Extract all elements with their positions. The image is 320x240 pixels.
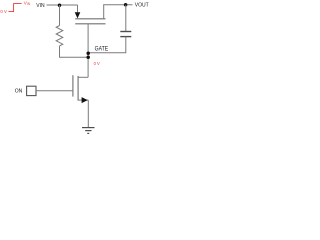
- resistor R zigzag body: [56, 26, 63, 46]
- wire Q2 source down to ground: [87, 100, 89, 128]
- wire Q2 source lead: [78, 99, 88, 101]
- body diode arrow (filled triangle pointing down onto channel): [75, 12, 81, 18]
- ground symbol: [82, 127, 95, 129]
- node junction dot gate/resistor: [86, 55, 90, 59]
- svg-text:VOUT: VOUT: [135, 3, 149, 9]
- transistor Q2 channel bar: [77, 76, 79, 101]
- svg-text:ON: ON: [15, 89, 23, 95]
- svg-text:GATE: GATE: [95, 46, 109, 52]
- wire ON box to Q2 gate: [36, 90, 73, 92]
- wire VOUT top horizontal: [103, 4, 132, 6]
- svg-text:VIN: VIN: [24, 0, 31, 6]
- capacitor C top plate: [120, 31, 131, 33]
- wire gate net vertical (Q1 gate down to Q2 drain): [87, 24, 89, 78]
- capacitor C top lead: [125, 5, 127, 32]
- pass transistor Q1 upper plate (channel): [75, 18, 105, 20]
- source waveform step (red): [9, 4, 22, 12]
- wire Q1 drain riser to VOUT rail: [103, 5, 105, 19]
- svg-text:VIN: VIN: [36, 3, 45, 9]
- node junction dot at VOUT/capacitor tap: [124, 3, 128, 7]
- transistor Q2 source arrow (NMOS, pointing right): [82, 97, 88, 103]
- capacitor C bottom lead down to gate net: [88, 37, 126, 53]
- resistor R top lead from VIN node: [59, 5, 61, 26]
- svg-text:0 V: 0 V: [94, 61, 100, 66]
- capacitor C bottom plate: [120, 36, 131, 38]
- wire VIN top horizontal: [47, 4, 78, 6]
- pass transistor Q1 lower plate (gate): [75, 23, 105, 25]
- ON input box: [27, 86, 36, 95]
- resistor R bottom lead and wire to gate net: [60, 46, 89, 57]
- svg-text:0 V: 0 V: [0, 9, 6, 14]
- wire riser from top wire down to body diode: [77, 5, 79, 12]
- transistor Q2 gate bar: [72, 75, 74, 96]
- wire Q2 drain lead: [78, 76, 88, 78]
- node junction dot gate/capacitor: [86, 51, 90, 55]
- node junction dot at VIN/resistor tap: [58, 3, 62, 7]
